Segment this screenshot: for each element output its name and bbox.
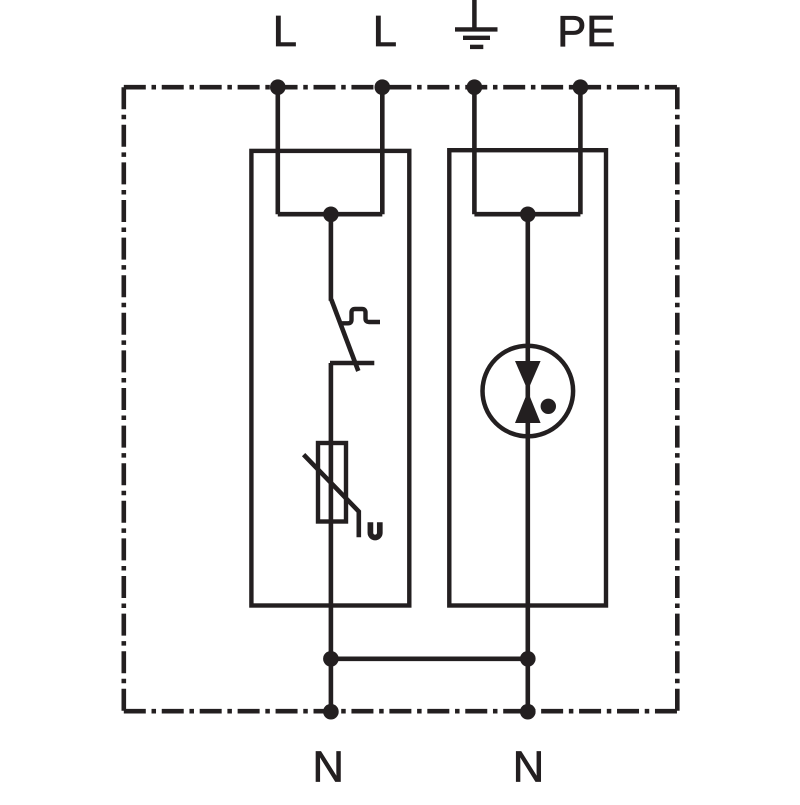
wire from terminal L1 down into left module — [275, 87, 280, 214]
right module collector bar — [474, 212, 580, 217]
svg-text:N: N — [513, 744, 544, 792]
junction dot at L1 border crossing — [270, 79, 286, 95]
svg-text:PE: PE — [557, 8, 615, 56]
wire from bottom bar to N border crossing left — [329, 659, 334, 711]
dash-dot enclosure border right edge — [675, 87, 680, 711]
ground symbol (earth terminal) — [455, 0, 498, 47]
varistor diagonal stroke with bent tail — [304, 455, 359, 538]
junction dot right end of bottom bar — [520, 651, 536, 667]
junction dot at right N border crossing — [520, 704, 536, 720]
junction dot at PE border crossing — [573, 79, 589, 95]
junction dot on left collector bar — [323, 207, 339, 223]
spark gap lower electrode triangle — [515, 392, 541, 424]
svg-text:L: L — [373, 8, 397, 56]
thermal disconnector lower contact — [330, 361, 374, 365]
varistor label U — [370, 522, 379, 537]
junction dot at earth border crossing — [467, 79, 483, 95]
thermal disconnector switch blade — [331, 300, 358, 372]
junction dot on right collector bar — [520, 207, 536, 223]
dash-dot enclosure border left edge — [122, 87, 127, 711]
svg-text:L: L — [273, 8, 297, 56]
left module collector bar — [278, 212, 383, 217]
wire from left collector bar down to disconnector — [329, 214, 334, 301]
varistor body rectangle — [318, 443, 346, 522]
left module box (varistor protection module) — [251, 151, 409, 606]
bottom connecting bar between modules — [331, 656, 528, 661]
right module box (N-PE spark gap module) — [449, 150, 606, 605]
spark gap upper electrode triangle — [515, 361, 541, 391]
spark gap indicator dot — [541, 399, 556, 414]
wire from bottom bar to N border crossing right — [525, 659, 530, 711]
wire from right collector bar down through spark gap to bottom bar — [525, 214, 530, 659]
wire from terminal L2 down into left module — [380, 87, 385, 214]
junction dot at left N border crossing — [323, 704, 339, 720]
wire from earth terminal down into right module — [472, 87, 477, 214]
gas discharge tube circle — [483, 346, 574, 437]
dash-dot enclosure border top edge — [124, 85, 678, 90]
junction dot at L2 border crossing — [375, 79, 391, 95]
svg-text:N: N — [312, 744, 343, 792]
wire from disconnector down through varistor to bottom bar — [329, 363, 334, 659]
thermal element bump symbol — [340, 309, 380, 323]
junction dot left end of bottom bar — [323, 651, 339, 667]
wire from terminal PE down into right module — [578, 87, 583, 214]
dash-dot enclosure border bottom edge — [124, 709, 678, 714]
